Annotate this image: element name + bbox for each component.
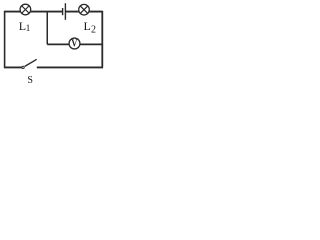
wire right vertical xyxy=(101,11,103,68)
svg-text:V: V xyxy=(71,39,77,50)
battery xyxy=(63,3,66,20)
wire bottom-left segment xyxy=(4,66,22,68)
wire bottom-right segment xyxy=(37,66,103,68)
svg-text:1: 1 xyxy=(26,23,31,33)
wire voltmeter-branch vertical xyxy=(46,12,48,45)
lamp L1 xyxy=(20,4,31,15)
switch S xyxy=(22,59,37,68)
wire left vertical xyxy=(4,11,6,68)
label L2 xyxy=(84,19,97,35)
svg-text:S: S xyxy=(27,75,33,86)
svg-text:L: L xyxy=(84,19,91,33)
wire top-left segment xyxy=(5,11,63,13)
wire top-right segment xyxy=(65,11,102,13)
wire voltmeter-branch horizontal xyxy=(47,43,102,45)
voltmeter V xyxy=(69,38,80,50)
lamp L2 xyxy=(79,4,90,15)
label S xyxy=(27,75,33,86)
svg-text:2: 2 xyxy=(91,24,96,35)
label L1 xyxy=(19,19,31,33)
